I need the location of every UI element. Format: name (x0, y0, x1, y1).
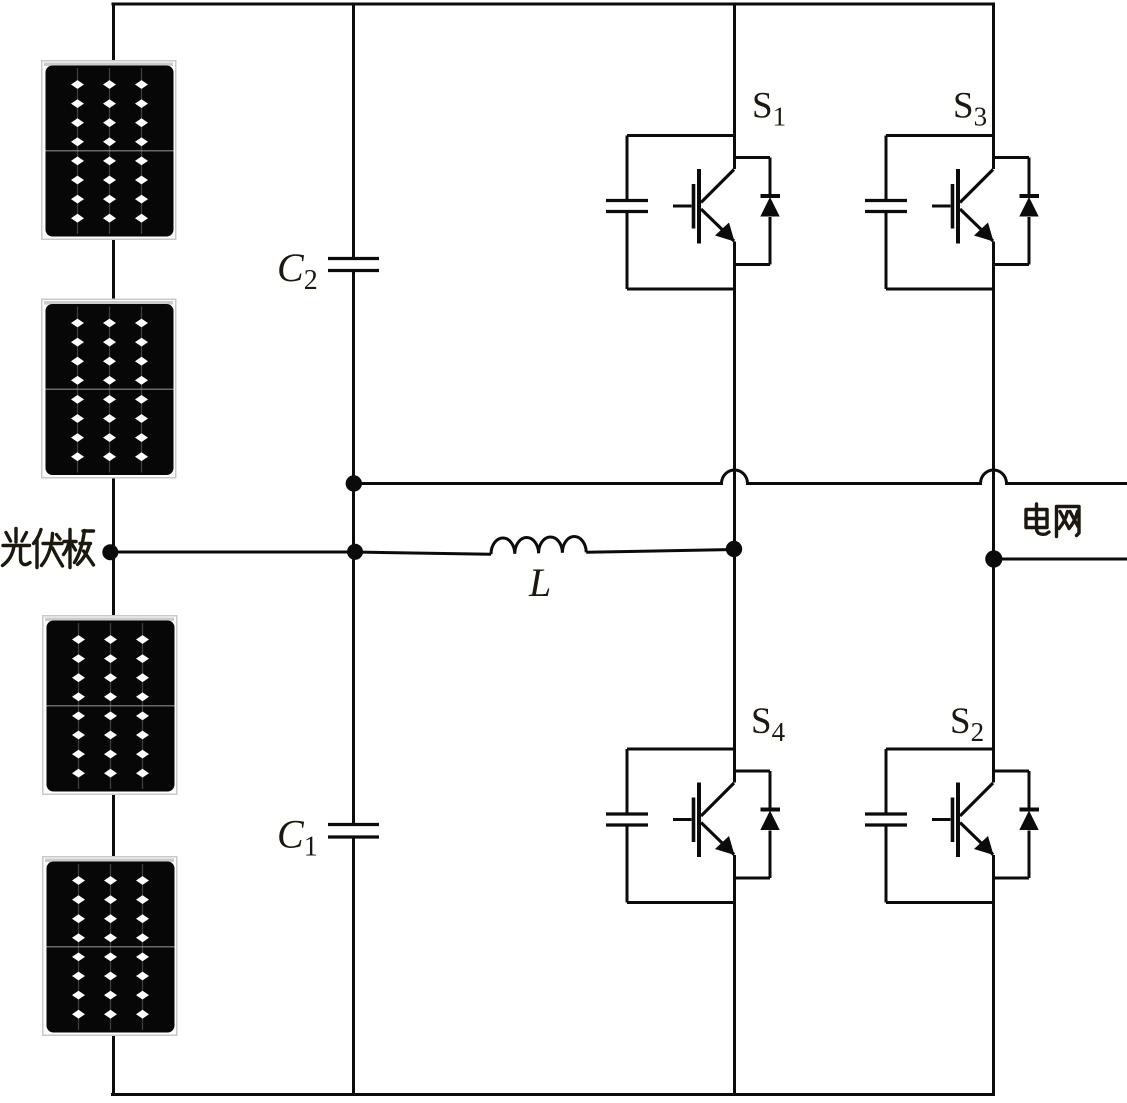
svg-text:C1: C1 (277, 812, 318, 863)
svg-text:S2: S2 (950, 701, 984, 747)
svg-text:S3: S3 (953, 86, 987, 132)
svg-text:S4: S4 (751, 701, 786, 747)
svg-text:C2: C2 (277, 245, 318, 296)
svg-text:S1: S1 (752, 86, 786, 132)
svg-text:L: L (528, 560, 551, 605)
